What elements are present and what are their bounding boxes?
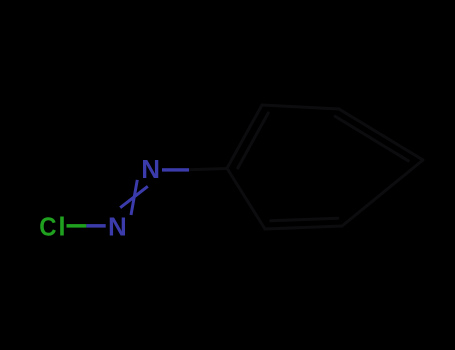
wire: ring edge V2-V3 [262,105,339,109]
svg-text:N: N [108,211,127,241]
wire: ring edge V6-V1 [227,168,265,229]
wire: inner double bond line V3-V4 [335,116,408,160]
wire: carbon half of N2-ring bond [189,169,226,170]
wire: ring edge V3-V4 [339,109,423,160]
wire: ring edge V1-V2 [227,105,262,168]
wire: inner double bond line V1-V2 [238,113,268,168]
wire: ring edge V5-V6 [265,226,342,229]
wire: ring edge V4-V5 [342,160,423,226]
benzene ring (carbon skeleton, near-black) [189,105,423,229]
bond N2-ring blue half [162,168,189,171]
bond Cl-N1 green half [67,224,87,228]
crossed double bond N1=N2 line B [120,186,148,207]
crossed double bond N1=N2 line A [131,180,137,215]
wire: inner double bond line V5-V6 [271,218,338,221]
svg-text:l: l [58,211,65,241]
bond Cl-N1 blue half [86,224,105,228]
svg-text:N: N [141,154,160,184]
svg-text:C: C [39,211,57,241]
